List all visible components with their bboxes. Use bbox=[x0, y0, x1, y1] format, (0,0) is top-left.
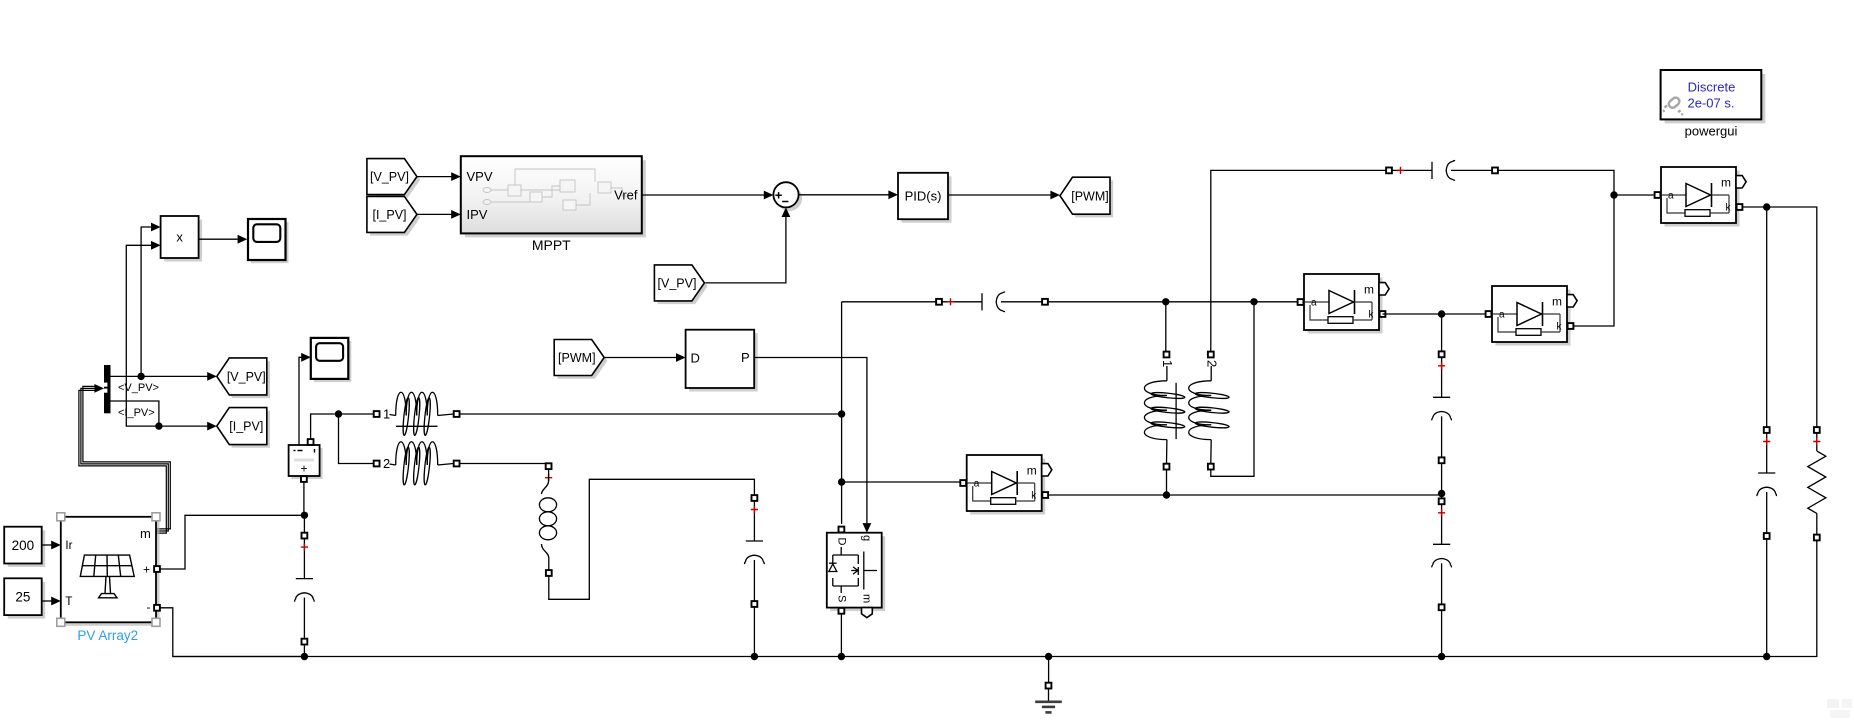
capacitor Ca top wire bbox=[842, 301, 936, 303]
wire MPPT Vref to sum bbox=[642, 191, 774, 200]
from tag [V_PV] bbox=[367, 159, 420, 198]
diode D2 bbox=[1486, 286, 1578, 346]
subsystem MPPT bbox=[461, 156, 646, 237]
capacitor Cmid bbox=[745, 495, 765, 607]
svg-text:D: D bbox=[691, 350, 700, 365]
svg-text:2: 2 bbox=[383, 456, 390, 471]
wire node to diode1 a bbox=[842, 481, 960, 483]
wire P out to MOSFET g bbox=[754, 358, 867, 524]
wire from I_PV to MPPT IPV bbox=[417, 210, 461, 219]
svg-text:[V_PV]: [V_PV] bbox=[658, 277, 697, 291]
from tag [V_PV] ref bbox=[654, 265, 707, 304]
wire node to input capacitor bbox=[303, 515, 305, 532]
watermark bbox=[1827, 699, 1852, 718]
svg-text:VPV: VPV bbox=[467, 169, 493, 184]
wire T2 winding1 bottom to k-bus bbox=[1166, 470, 1168, 495]
wire Rload to bus bbox=[1770, 541, 1817, 657]
wire node to diode4 a bbox=[1614, 194, 1654, 196]
capacitor Cout bbox=[1757, 427, 1777, 539]
svg-text:D: D bbox=[836, 538, 848, 546]
scope Scope2 bbox=[311, 338, 352, 382]
scope Scope1 bbox=[248, 219, 289, 263]
from tag [I_PV] bbox=[367, 196, 420, 235]
PV Array2 block bbox=[61, 517, 160, 626]
node bus cap chain bbox=[1438, 653, 1445, 660]
wire node to capA bbox=[1441, 314, 1443, 351]
wire diode4 k to output branches bbox=[1743, 207, 1817, 427]
svg-text:x: x bbox=[176, 230, 183, 245]
node diode1 branch bbox=[838, 478, 845, 485]
wire measurement bottom to PV node bbox=[303, 482, 305, 512]
node winding1 right bbox=[838, 410, 845, 417]
wire T2 winding2 bottom return bbox=[1211, 302, 1254, 477]
goto tag [I_PV] bbox=[217, 408, 270, 448]
svg-text:<V_PV>: <V_PV> bbox=[118, 382, 159, 394]
bottom bus wire bbox=[173, 656, 1767, 658]
svg-text:[I_PV]: [I_PV] bbox=[229, 420, 263, 434]
svg-text:[PWM]: [PWM] bbox=[558, 351, 596, 365]
wire Ca to T2 node bbox=[1048, 301, 1300, 303]
svg-text:PV Array2: PV Array2 bbox=[77, 628, 138, 643]
wire measurement v out to scope2 bbox=[299, 353, 311, 445]
powergui block bbox=[1661, 70, 1766, 123]
svg-text:[V_PV]: [V_PV] bbox=[370, 170, 409, 184]
resistor Rload bbox=[1808, 427, 1826, 540]
wire T2 winding1 top stub bbox=[1165, 302, 1167, 352]
svg-text:+: + bbox=[143, 562, 150, 576]
transformer T2 winding 2 bbox=[1189, 352, 1230, 470]
wire Cin to bottom bus bbox=[303, 645, 305, 657]
diode D4 bbox=[1655, 167, 1747, 227]
node bus MOSFET bbox=[838, 653, 845, 660]
capacitor Co1 bbox=[1432, 351, 1452, 463]
diode D3 bbox=[1298, 274, 1390, 334]
svg-text:powergui: powergui bbox=[1685, 124, 1738, 139]
PID controller block bbox=[898, 173, 952, 223]
wire MOSFET S to bottom bus bbox=[840, 614, 842, 657]
transformer T2 core bbox=[1175, 383, 1177, 439]
transformer T1 winding 1 bbox=[374, 392, 460, 435]
wire bus selector out1 to goto V_PV bbox=[111, 372, 217, 381]
wire capA to capB bbox=[1441, 464, 1443, 499]
wire Cout to bus bbox=[1766, 539, 1768, 656]
wire 25 to T bbox=[42, 597, 61, 606]
node cap chain top bbox=[1438, 310, 1445, 317]
wire PV minus to bottom bus bbox=[160, 608, 301, 657]
wire node to output cap bbox=[1766, 207, 1768, 427]
node T2 winding1 bottom bbox=[1163, 491, 1170, 498]
node T2 winding2 return bbox=[1250, 298, 1257, 305]
node T2 winding1 top bbox=[1162, 298, 1169, 305]
inductor L1 bbox=[539, 463, 556, 576]
goto tag [PWM] bbox=[1060, 177, 1113, 217]
wire measurement top to transformer node bbox=[311, 414, 335, 439]
svg-text:200: 200 bbox=[12, 538, 35, 553]
MOSFET block bbox=[827, 527, 885, 618]
sum block bbox=[773, 182, 802, 211]
capacitor Ca (series) bbox=[936, 292, 1048, 312]
voltage measurement block bbox=[289, 439, 323, 482]
wire PID to goto PWM bbox=[948, 191, 1060, 200]
wire 200 to Ir bbox=[42, 541, 61, 550]
bus signal wire PV m to bus selector (vector) bbox=[79, 384, 170, 533]
ground bbox=[1035, 683, 1062, 713]
svg-text:m: m bbox=[140, 526, 151, 541]
svg-text:g: g bbox=[861, 535, 873, 541]
svg-text:25: 25 bbox=[15, 589, 30, 604]
node transformer input bbox=[335, 410, 342, 417]
svg-text:[PWM]: [PWM] bbox=[1071, 189, 1109, 203]
wire Cmid to bottom bus bbox=[753, 607, 755, 656]
wire diode2 k up to diode4 level bbox=[1574, 195, 1614, 326]
wire bus to ground bbox=[1048, 657, 1050, 683]
diode D1 bbox=[960, 455, 1052, 515]
node bus Cin bbox=[301, 653, 308, 660]
svg-text:T: T bbox=[65, 596, 72, 608]
wire from PWM to D input bbox=[605, 353, 686, 362]
goto tag [V_PV] bbox=[217, 358, 270, 398]
node diode4 input bbox=[1610, 191, 1617, 198]
svg-text:IPV: IPV bbox=[467, 207, 488, 222]
wire L1 bottom to Cmid bbox=[549, 479, 755, 599]
svg-text:[V_PV]: [V_PV] bbox=[227, 370, 266, 384]
from tag [PWM] bbox=[554, 340, 607, 379]
wire bus selector out2 to goto I_PV bbox=[111, 401, 217, 431]
svg-text:Vref: Vref bbox=[614, 188, 638, 203]
wire Cb to diode4 corner bbox=[1498, 170, 1614, 195]
svg-text:PID(s): PID(s) bbox=[905, 189, 942, 204]
svg-text:P: P bbox=[741, 350, 750, 365]
transformer T1 core bbox=[396, 425, 438, 427]
wire T1 winding2 right to inductor bbox=[460, 463, 549, 465]
svg-text:1: 1 bbox=[383, 407, 390, 422]
svg-text:+: + bbox=[300, 462, 307, 476]
bus selector bbox=[104, 365, 111, 413]
svg-text:S: S bbox=[836, 595, 848, 602]
svg-text:[I_PV]: [I_PV] bbox=[372, 208, 406, 222]
svg-text:m: m bbox=[861, 594, 873, 603]
wire V_PV to multiply in1 bbox=[141, 223, 161, 375]
constant block 200 bbox=[4, 527, 45, 567]
node bus Cmid bbox=[751, 653, 758, 660]
node PV plus bbox=[301, 512, 308, 519]
wire T2 winding2 top to cap row bbox=[1211, 170, 1386, 351]
node bus Cout bbox=[1763, 653, 1770, 660]
node bus ground bbox=[1045, 653, 1052, 660]
wire node to winding 2 left bbox=[339, 414, 374, 464]
PWM generator block D P bbox=[686, 330, 758, 392]
capacitor Cb (series top) bbox=[1386, 161, 1498, 181]
svg-text:Ir: Ir bbox=[65, 540, 72, 552]
wire multiply out to scope1 bbox=[199, 235, 248, 244]
svg-text:Discrete: Discrete bbox=[1688, 80, 1736, 95]
selection handles PV Array2 bbox=[57, 513, 160, 627]
wire main node vertical Ca to MOSFET D bbox=[841, 302, 843, 524]
wire diode3 k to diode2 a bbox=[1383, 313, 1486, 315]
wire sum to PID bbox=[799, 190, 898, 199]
transformer T1 winding 2 bbox=[374, 442, 460, 485]
wire from V_PV ref to sum bottom bbox=[705, 207, 790, 283]
wire diode1 k to transformer bus bbox=[1049, 494, 1439, 496]
wire node to winding 1 left bbox=[339, 413, 374, 415]
node output cap branch bbox=[1763, 203, 1770, 210]
node cap chain mid bbox=[1438, 490, 1445, 497]
capacitor Co2 bbox=[1432, 498, 1452, 610]
wire from V_PV to MPPT VPV bbox=[417, 172, 461, 181]
wire T1 winding1 right to MOSFET node bbox=[460, 413, 842, 415]
svg-text:2e-07 s.: 2e-07 s. bbox=[1688, 96, 1735, 111]
svg-text:-: - bbox=[147, 600, 151, 614]
capacitor Cin bbox=[295, 533, 315, 645]
svg-text:<I_PV>: <I_PV> bbox=[118, 407, 155, 419]
wire PV plus to node bbox=[160, 515, 301, 569]
wire capB to bottom bus bbox=[1441, 611, 1443, 657]
wire I_PV to multiply in2 bbox=[126, 241, 160, 426]
multiply block Product bbox=[161, 216, 203, 262]
constant block 25 bbox=[4, 578, 45, 618]
svg-text:MPPT: MPPT bbox=[532, 237, 571, 253]
transformer T2 winding 1 bbox=[1144, 352, 1185, 470]
